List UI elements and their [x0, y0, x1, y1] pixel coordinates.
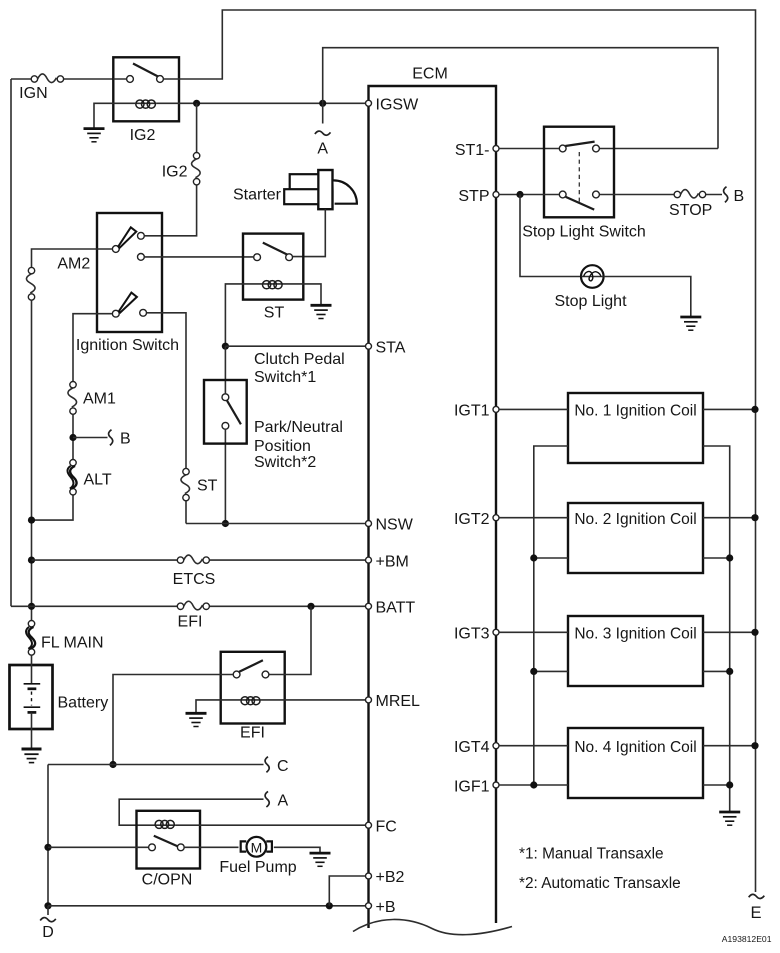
- svg-text:C: C: [277, 758, 289, 775]
- wire: IG2 relay output up over the top to right rail (to ignition coils / E): [179, 10, 756, 892]
- relay C/OPN box: [137, 811, 201, 869]
- connector B (stop light circuit): [724, 187, 728, 203]
- ECM box (open bottom with wavy cut): [369, 86, 497, 928]
- wire: ignition switch IG2 contact to ST relay: [145, 256, 254, 258]
- svg-text:Battery: Battery: [58, 695, 109, 712]
- pin IGT3: [493, 629, 499, 635]
- ground for IG2 relay coil: [84, 129, 105, 142]
- wire: D connector stub: [47, 906, 49, 915]
- pin IGSW: [366, 100, 372, 106]
- ECM wavy bottom cut line: [353, 919, 512, 934]
- fuse AM1: [68, 382, 77, 415]
- node: junction NSW line / clutch switch: [222, 520, 229, 527]
- wire: IG2 fuse rail down to ignition switch contact: [145, 103, 197, 236]
- svg-text:AM2: AM2: [57, 256, 90, 273]
- fuse IGN: [31, 74, 63, 83]
- fuse STOP: [674, 190, 706, 198]
- ignition switch key blade (bottom): [119, 293, 137, 313]
- svg-text:Stop Light Switch: Stop Light Switch: [522, 224, 646, 241]
- wire: coil 3 output to right power rail: [703, 631, 755, 633]
- ground for fuel pump: [310, 853, 331, 866]
- node: junction C/OPN switch feed on left rail: [44, 844, 51, 851]
- wire: IGT2 to coil 2: [499, 517, 568, 519]
- switch: Ignition Switch box: [97, 213, 162, 332]
- node: junction B connector tee: [69, 434, 76, 441]
- pin ST1-: [493, 146, 499, 152]
- node: junction +B2 branch on +B line: [326, 902, 333, 909]
- node: junction +B line / left rail: [44, 902, 51, 909]
- svg-text:ST: ST: [197, 478, 218, 495]
- svg-text:+B: +B: [376, 899, 396, 916]
- node: junction coil 1 on power rail: [751, 406, 758, 413]
- pin IGT2: [493, 515, 499, 521]
- relay C/OPN switch contacts: [149, 844, 156, 851]
- wire: C/OPN switch to fuel pump: [185, 846, 239, 848]
- ground for ignition coils: [719, 812, 740, 825]
- svg-text:ETCS: ETCS: [173, 571, 216, 588]
- wire: AM2 rail down to FL MAIN: [31, 300, 33, 620]
- wire: stop light to ground: [604, 277, 691, 317]
- stop light switch top blade: [565, 142, 594, 146]
- svg-text:IGT4: IGT4: [454, 739, 490, 756]
- wire: starter to ST relay contact: [293, 209, 325, 256]
- node: junction IGSW wire / IG2 fuse rail: [193, 100, 200, 107]
- wire: coil 2 IGF lead: [534, 557, 568, 559]
- stop light switch bottom contacts: [559, 191, 566, 198]
- connector D (to sheet D): [40, 918, 56, 922]
- svg-text:FL MAIN: FL MAIN: [41, 635, 104, 652]
- clutch switch blade: [227, 401, 241, 425]
- wire: left rail to C/OPN switch: [48, 846, 148, 848]
- ignition switch AM2 pivot and contacts: [112, 246, 119, 253]
- svg-text:*1: Manual Transaxle: *1: Manual Transaxle: [519, 846, 664, 863]
- svg-text:ST: ST: [264, 305, 285, 322]
- relay IG2 switch contacts: [127, 76, 134, 83]
- wire: ignition switch ST contact down through ST fuse to NSW line: [147, 313, 186, 524]
- wire: AM1 rail down to ALT and join: [32, 414, 74, 520]
- wire: coil 2 ground lead: [703, 557, 730, 559]
- node: junction STP line / stop light drop: [516, 191, 523, 198]
- wire: +B2 branch: [329, 876, 365, 906]
- wire: stop light switch top output to right loop: [600, 148, 718, 150]
- svg-text:D: D: [42, 924, 54, 941]
- wire: coil 1 IGF lead to IGF rail: [534, 446, 568, 785]
- wire: B connector stub: [73, 437, 108, 439]
- ground for EFI relay coil: [186, 713, 207, 726]
- pin FC: [366, 822, 372, 828]
- svg-text:STP: STP: [458, 188, 489, 205]
- svg-text:EFI: EFI: [240, 725, 265, 742]
- wire: battery negative to ground: [31, 712, 33, 748]
- wire: A connector stub: [322, 103, 324, 123]
- wire: EFI coil left lead to ground: [196, 700, 241, 713]
- svg-text:FC: FC: [376, 819, 397, 836]
- wire: EFI coil right lead to MREL: [261, 699, 366, 701]
- svg-text:AM1: AM1: [83, 391, 116, 408]
- node: junction coil 3 on power rail: [751, 629, 758, 636]
- node: junction coil 2 on IGF rail: [530, 554, 537, 561]
- node: junction coil 2 on power rail: [751, 514, 758, 521]
- wire: ignition switch AM1 pivot lead: [73, 314, 112, 382]
- ignition switch key blade (top): [118, 227, 136, 248]
- stop light switch bottom blade: [566, 197, 595, 210]
- wire: ST1- line from ECM into stop light switch: [499, 148, 559, 150]
- svg-text:C/OPN: C/OPN: [142, 872, 193, 889]
- svg-text:STA: STA: [376, 340, 406, 357]
- relay EFI switch blade: [239, 660, 263, 672]
- pin IGT4: [493, 743, 499, 749]
- switch: Clutch Pedal / Park Neutral Position box: [204, 380, 247, 444]
- clutch switch contacts: [222, 394, 229, 401]
- relay IG2 switch blade: [133, 64, 158, 77]
- ignition coil No.1 box: [568, 393, 703, 463]
- fuse IG2: [192, 153, 201, 185]
- switch: Stop Light Switch box: [544, 127, 614, 218]
- connector E (to sheet E): [749, 894, 765, 898]
- wire: coil 1 output to right power rail: [703, 408, 755, 410]
- wire: STP line from ECM to stop light switch: [499, 194, 559, 196]
- pin BATT: [366, 603, 372, 609]
- ground for battery: [22, 749, 42, 763]
- svg-text:Position: Position: [254, 438, 311, 455]
- svg-text:Switch*1: Switch*1: [254, 369, 316, 386]
- svg-text:ALT: ALT: [84, 472, 112, 489]
- svg-text:B: B: [120, 430, 131, 447]
- svg-text:STOP: STOP: [669, 202, 712, 219]
- wire: IGN feed from left rail to IG2 relay: [11, 78, 113, 80]
- svg-text:+B2: +B2: [376, 869, 405, 886]
- wire: STP drop to stop light bulb: [520, 195, 582, 277]
- fuse AM2: [26, 267, 35, 300]
- relay IG2 box: [113, 57, 179, 121]
- stop light switch top contacts: [559, 145, 566, 152]
- relay ST box: [243, 234, 303, 300]
- svg-text:Clutch Pedal: Clutch Pedal: [254, 351, 345, 368]
- wire: FL MAIN to battery positive plate: [31, 655, 33, 684]
- svg-text:EFI: EFI: [178, 614, 203, 631]
- wire: left vertical rail from IGN down to BATT line: [10, 79, 12, 606]
- pin IGT1: [493, 406, 499, 412]
- wire: EFI relay switch left lead down to C line: [113, 675, 233, 765]
- wire: coil 4 ground lead: [703, 784, 730, 786]
- node: junction coil 3 on ground rail: [726, 668, 733, 675]
- svg-text:No. 1 Ignition Coil: No. 1 Ignition Coil: [574, 402, 696, 419]
- node: junction IGF1 line / IGF rail: [530, 781, 537, 788]
- wire: coil 2 output to right power rail: [703, 517, 755, 519]
- svg-text:IG2: IG2: [130, 127, 156, 144]
- node: junction IGSW wire / ST1- loop and A stub: [319, 100, 326, 107]
- connector C (to sheet C): [265, 757, 269, 773]
- ground for ST relay coil: [311, 305, 332, 318]
- node: junction coil 3 on IGF rail: [530, 668, 537, 675]
- node: junction coil 4 on ground rail: [726, 781, 733, 788]
- node: junction C line / EFI relay: [109, 761, 116, 768]
- coil of relay EFI: [241, 697, 261, 705]
- svg-text:IG2: IG2: [162, 164, 188, 181]
- coil of relay ST: [263, 281, 284, 289]
- pin STP: [493, 192, 499, 198]
- svg-text:IGN: IGN: [19, 85, 47, 102]
- ignition coil No.3 box: [568, 616, 703, 686]
- coil of relay C/OPN: [155, 820, 175, 828]
- starter bell housing: [334, 180, 357, 203]
- node: junction BATT line / EFI relay drop: [307, 603, 314, 610]
- svg-text:IGT3: IGT3: [454, 626, 490, 643]
- svg-text:Park/Neutral: Park/Neutral: [254, 419, 343, 436]
- wire: IGT3 to coil 3: [499, 631, 568, 633]
- svg-text:BATT: BATT: [376, 600, 416, 617]
- wire: IG2 box left edge to switch contact: [113, 78, 179, 80]
- pin IGF1: [493, 782, 499, 788]
- node: junction coil 4 on power rail: [751, 742, 758, 749]
- wire: AM2 feed to ignition switch pivot: [32, 249, 113, 267]
- svg-text:No. 4 Ignition Coil: No. 4 Ignition Coil: [574, 739, 696, 756]
- fuse EFI: [177, 601, 209, 610]
- wire: C line: [48, 764, 264, 766]
- pin +B2: [366, 873, 372, 879]
- fuse ETCS: [177, 555, 209, 564]
- pin +BM: [366, 557, 372, 563]
- wire: coil 3 ground lead: [703, 670, 730, 672]
- lamp: Stop Light bulb: [581, 265, 604, 288]
- wire: ST1- loop from A-node up and across to right, down to stop light switch: [323, 48, 718, 149]
- wire: ST relay coil right lead to ground: [283, 284, 321, 305]
- svg-text:IGF1: IGF1: [454, 778, 490, 795]
- connector A (to sheet A, fuel pump): [265, 791, 269, 807]
- svg-text:ECM: ECM: [412, 66, 448, 83]
- node: junction STA line / clutch switch drop: [222, 343, 229, 350]
- fusible link ALT: [67, 460, 76, 495]
- pin NSW: [366, 521, 372, 527]
- wire: BATT line from left rail through EFI fuse to ECM: [11, 605, 365, 607]
- svg-text:Stop Light: Stop Light: [554, 293, 627, 310]
- svg-text:Switch*2: Switch*2: [254, 454, 316, 471]
- pin +B: [366, 903, 372, 909]
- svg-text:A: A: [317, 140, 328, 157]
- wire: +B line to ECM: [48, 905, 365, 907]
- svg-text:IGT2: IGT2: [454, 511, 490, 528]
- svg-text:*2: Automatic Transaxle: *2: Automatic Transaxle: [519, 875, 681, 892]
- svg-text:IGT1: IGT1: [454, 403, 490, 420]
- ignition switch ST pivot and contact: [112, 310, 119, 317]
- node: junction coil 2 on ground rail: [726, 554, 733, 561]
- svg-text:A193812E01: A193812E01: [722, 934, 772, 944]
- motor: Fuel Pump: [241, 837, 272, 857]
- node: junction ALT rail joins AM2 rail: [28, 517, 35, 524]
- relay C/OPN switch blade: [154, 836, 178, 846]
- svg-text:MREL: MREL: [376, 693, 421, 710]
- wire: C/OPN coil right lead to FC pin: [175, 824, 365, 826]
- starter solenoid body: [318, 170, 332, 209]
- stop light switch linkage (dashed): [578, 152, 580, 205]
- starter upper rectangle: [290, 174, 319, 190]
- wire: coil 4 output to right power rail: [703, 745, 755, 747]
- connector A (to sheet A): [315, 131, 331, 135]
- wire: fuel pump to ground: [274, 847, 320, 852]
- wire: coil 1 ground lead to ground rail: [703, 446, 730, 811]
- svg-text:+BM: +BM: [376, 554, 409, 571]
- battery box: [10, 665, 53, 729]
- svg-text:No. 3 Ignition Coil: No. 3 Ignition Coil: [574, 626, 696, 643]
- fuse ST: [181, 468, 190, 500]
- node: junction BATT line / AM2 rail: [28, 603, 35, 610]
- wire: ST relay coil left lead down to STA line: [225, 284, 262, 346]
- pin STA: [366, 343, 372, 349]
- svg-text:Starter: Starter: [233, 187, 282, 204]
- svg-text:Ignition Switch: Ignition Switch: [76, 337, 179, 354]
- node: junction +BM line / AM2 rail: [28, 557, 35, 564]
- wire: STA line to ECM: [225, 345, 365, 347]
- wire: coil 3 IGF lead: [534, 670, 568, 672]
- svg-text:IGSW: IGSW: [376, 97, 420, 114]
- wire: IGF1 line to coil 4: [499, 784, 568, 786]
- wire: stop light switch bottom output to STOP fuse and B: [600, 194, 722, 196]
- svg-text:B: B: [734, 188, 745, 205]
- wire: A line to C/OPN coil: [119, 799, 263, 825]
- wire: left bottom rail from C line to +B line: [47, 765, 49, 906]
- svg-text:No. 2 Ignition Coil: No. 2 Ignition Coil: [574, 511, 696, 528]
- fusible link FL MAIN: [26, 621, 35, 656]
- wire: IGT4 to coil 4: [499, 745, 568, 747]
- pin MREL: [366, 697, 372, 703]
- ground for stop light: [680, 317, 701, 330]
- svg-text:Fuel Pump: Fuel Pump: [219, 859, 296, 876]
- svg-text:NSW: NSW: [376, 517, 414, 534]
- relay ST switch contacts: [254, 254, 261, 261]
- wire: IGT1 to coil 1: [499, 408, 568, 410]
- coil of relay IG2: [136, 100, 157, 108]
- relay EFI switch contacts: [233, 671, 240, 678]
- svg-text:M: M: [251, 839, 263, 855]
- svg-text:E: E: [750, 904, 761, 922]
- battery plates: [24, 684, 41, 713]
- svg-text:ST1-: ST1-: [455, 142, 490, 159]
- wire: IG2 coil left lead to ground, right lead to IGSW: [94, 103, 365, 128]
- wire: EFI relay switch right lead up to BATT line: [269, 606, 311, 674]
- wire: NSW line to ECM: [186, 523, 365, 525]
- wire: +BM line through ETCS fuse to ECM: [32, 559, 366, 561]
- svg-text:A: A: [278, 793, 289, 810]
- wire: clutch switch drop: [224, 346, 226, 523]
- connector B (to sheet B): [109, 430, 113, 446]
- ignition coil No.2 box: [568, 503, 703, 573]
- relay ST switch blade: [263, 243, 288, 255]
- relay EFI box: [221, 652, 285, 724]
- ignition coil No.4 box: [568, 728, 703, 798]
- starter lower rectangle: [284, 189, 318, 204]
